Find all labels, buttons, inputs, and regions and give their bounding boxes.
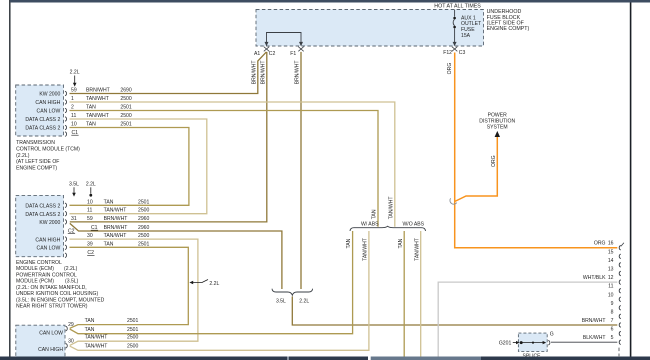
svg-text:2501: 2501 (120, 122, 131, 128)
top bar (10, 0, 650, 3)
svg-text:TAN: TAN (85, 327, 95, 333)
svg-text:2500: 2500 (138, 233, 149, 239)
right connector pins 16..5 (619, 245, 621, 344)
svg-text:G: G (550, 331, 554, 337)
wire TAN/WHT 2500 ECM pin 30 to radio pin 30 (70, 239, 198, 345)
svg-text:CONTROL MODULE (TCM): CONTROL MODULE (TCM) (16, 147, 80, 153)
svg-text:TAN: TAN (398, 238, 404, 248)
svg-text:KW 2000: KW 2000 (39, 220, 60, 226)
right connector pin numbers (608, 241, 614, 342)
svg-text:CAN LOW: CAN LOW (37, 246, 61, 252)
svg-text:MODULE (PCM): MODULE (PCM) (16, 279, 54, 285)
svg-text:BRN/WHT: BRN/WHT (295, 61, 301, 85)
svg-text:UNDER IGNITION COIL HOUSING): UNDER IGNITION COIL HOUSING) (16, 291, 98, 297)
svg-text:BRN/WHT: BRN/WHT (104, 216, 128, 222)
svg-text:W/ ABS: W/ ABS (361, 221, 379, 227)
svg-text:(3.5L): (3.5L) (65, 279, 79, 285)
svg-text:2500: 2500 (120, 113, 131, 119)
3.5L arrow above ECM (69, 182, 79, 197)
svg-text:CAN HIGH: CAN HIGH (38, 347, 63, 353)
wire TAN 2501 radio pin 29 to W-ABS (70, 231, 353, 334)
svg-text:2.2L: 2.2L (70, 70, 80, 76)
svg-text:BLK/WHT: BLK/WHT (583, 335, 606, 341)
ECM caption (16, 260, 105, 310)
svg-text:2500: 2500 (127, 344, 138, 350)
svg-text:2.2L: 2.2L (86, 182, 96, 188)
wire BRN/WHT 2690 TCM pin 59 to A1 (70, 52, 267, 94)
svg-text:NEAR RIGHT STRUT TOWER): NEAR RIGHT STRUT TOWER) (16, 304, 88, 310)
svg-text:F12: F12 (443, 50, 452, 56)
svg-text:2501: 2501 (138, 241, 149, 247)
svg-text:(2.2L): (2.2L) (16, 153, 30, 159)
svg-text:TAN/WHT: TAN/WHT (414, 238, 420, 261)
wire TAN 2501 TCM pin 2 to brace (70, 111, 379, 227)
2.2L arrow above TCM pin 59 (70, 70, 80, 87)
svg-text:TAN/WHT: TAN/WHT (104, 208, 127, 214)
svg-text:7: 7 (611, 318, 614, 324)
2.2L arrow above ECM (86, 182, 96, 197)
svg-text:2501: 2501 (127, 327, 138, 333)
svg-text:13: 13 (608, 267, 614, 273)
svg-text:SYSTEM: SYSTEM (487, 125, 508, 131)
svg-text:2: 2 (71, 105, 74, 111)
brace 3.5L/2.2L merge (272, 289, 313, 296)
svg-text:TAN/WHT: TAN/WHT (85, 335, 108, 341)
svg-text:10: 10 (608, 292, 614, 298)
svg-text:8: 8 (611, 309, 614, 315)
node POWER DISTRIBUTION SYSTEM (479, 113, 515, 131)
svg-text:POWERTRAIN CONTROL: POWERTRAIN CONTROL (16, 272, 77, 278)
wire ORG branch to power distribution (455, 137, 498, 202)
svg-text:A1: A1 (254, 51, 260, 57)
svg-text:ORG: ORG (491, 155, 497, 167)
svg-text:BRN/WHT: BRN/WHT (86, 88, 110, 94)
svg-text:TAN: TAN (346, 238, 352, 248)
wire BRN/WHT 2960 A1 to ECM pin 59 (70, 52, 267, 222)
svg-text:TAN: TAN (86, 122, 96, 128)
svg-text:WHT/BLK: WHT/BLK (583, 275, 606, 281)
wire TAN W/O ABS down (403, 231, 405, 360)
page border right (630, 2, 632, 360)
TCM pin/wire labels (71, 88, 132, 137)
svg-text:BRN/WHT: BRN/WHT (582, 318, 606, 324)
svg-text:TAN: TAN (86, 105, 96, 111)
TCM caption (16, 140, 80, 171)
svg-text:(AT LEFT SIDE OF: (AT LEFT SIDE OF (16, 159, 59, 165)
svg-text:10: 10 (87, 199, 93, 205)
svg-text:BRN/WHT: BRN/WHT (260, 61, 266, 85)
svg-text:(3.5L: IN ENGINE COMPT, MOUNTE: (3.5L: IN ENGINE COMPT, MOUNTED (16, 297, 105, 303)
svg-text:DATA CLASS 2: DATA CLASS 2 (25, 126, 60, 132)
svg-text:BRN/WHT: BRN/WHT (251, 61, 257, 85)
svg-text:11: 11 (87, 208, 92, 214)
bus bar A1-F1 inside fuse block (267, 33, 302, 44)
svg-text:31: 31 (71, 216, 77, 222)
svg-text:ORG: ORG (447, 63, 453, 75)
svg-text:2.2L: 2.2L (209, 281, 219, 287)
svg-text:(2.2L: ON INTAKE MANIFOLD,: (2.2L: ON INTAKE MANIFOLD, (16, 285, 87, 291)
2.2L arrow pointing at riser wires (189, 280, 219, 288)
wire TAN/WHT 2500 TCM pin 1 to brace (70, 102, 395, 227)
svg-text:TAN: TAN (85, 318, 95, 324)
svg-text:HOT AT ALL TIMES: HOT AT ALL TIMES (434, 3, 481, 9)
svg-text:16: 16 (608, 241, 614, 247)
TCM pins (65, 91, 67, 136)
svg-text:DATA CLASS 2: DATA CLASS 2 (25, 212, 60, 218)
svg-text:10: 10 (71, 122, 77, 128)
svg-text:ENGINE CONTROL: ENGINE CONTROL (16, 260, 62, 266)
svg-text:BRN/WHT: BRN/WHT (104, 225, 128, 231)
svg-text:C3: C3 (459, 50, 466, 56)
ECM pins (65, 203, 67, 258)
pin F1 of fuse block (298, 47, 303, 52)
ECM/PCM block (16, 195, 64, 256)
svg-text:ORG: ORG (594, 241, 606, 247)
svg-text:2500: 2500 (127, 335, 138, 341)
svg-text:W/O ABS: W/O ABS (403, 221, 425, 227)
svg-text:CAN HIGH: CAN HIGH (35, 237, 60, 243)
svg-text:DATA CLASS 2: DATA CLASS 2 (25, 117, 60, 123)
wire BRN/WHT F1 down to 2.2L brace (300, 52, 302, 289)
wire BRN/WHT 2960 ECM C1 row to 3.5L brace (70, 223, 282, 289)
svg-text:TAN/WHT: TAN/WHT (388, 196, 394, 219)
ECM pin/wire labels (68, 199, 150, 256)
pin A1/C2 of fuse block (264, 47, 269, 52)
bottom bar (0, 357, 287, 360)
pin F12/C3 of fuse block (452, 47, 457, 52)
svg-text:TAN: TAN (104, 199, 114, 205)
vertical wire labels (251, 61, 496, 261)
wire ORG fuse to radio pin 16 (455, 53, 618, 248)
svg-text:30: 30 (68, 339, 74, 345)
svg-text:TAN/WHT: TAN/WHT (363, 238, 369, 261)
svg-text:3.5L: 3.5L (69, 182, 79, 188)
svg-text:KW 2000: KW 2000 (39, 92, 60, 98)
connector dashes (621, 243, 624, 247)
svg-text:2501: 2501 (138, 199, 149, 205)
svg-text:3.5L: 3.5L (276, 298, 286, 304)
svg-text:F1: F1 (290, 51, 296, 57)
svg-text:5: 5 (611, 335, 614, 341)
radio pins 29/30 (66, 326, 68, 348)
svg-text:15A: 15A (461, 33, 471, 39)
svg-text:CAN LOW: CAN LOW (39, 330, 63, 336)
svg-text:TRANSMISSION: TRANSMISSION (16, 140, 55, 146)
svg-text:2.2L: 2.2L (299, 298, 309, 304)
svg-text:(2.2L): (2.2L) (64, 266, 78, 272)
svg-text:59: 59 (87, 216, 93, 222)
svg-text:6: 6 (611, 327, 614, 333)
svg-text:TAN/WHT: TAN/WHT (86, 113, 109, 119)
radio block (bottom left) (16, 325, 65, 359)
svg-text:TAN/WHT: TAN/WHT (86, 96, 109, 102)
svg-text:2500: 2500 (120, 96, 131, 102)
fuse AUX 1 OUTLET FUSE 15A (453, 10, 482, 47)
svg-text:15: 15 (608, 249, 614, 255)
svg-text:TAN: TAN (372, 209, 378, 219)
svg-text:2960: 2960 (138, 216, 149, 222)
svg-text:39: 39 (87, 241, 93, 247)
page border left (9, 0, 11, 360)
wire TAN/WHT W/O ABS down (420, 231, 422, 360)
svg-text:59: 59 (71, 88, 77, 94)
svg-text:11: 11 (608, 284, 613, 290)
svg-text:29: 29 (68, 322, 74, 328)
wire TAN/WHT 2500 TCM pin 11 to ECM pin 11 (70, 119, 207, 214)
svg-text:14: 14 (608, 258, 614, 264)
right connector wire labels (582, 241, 606, 342)
TCM block (16, 85, 64, 136)
svg-text:9: 9 (611, 301, 614, 307)
svg-text:TAN/WHT: TAN/WHT (104, 233, 127, 239)
svg-text:CAN HIGH: CAN HIGH (35, 100, 60, 106)
svg-text:ENGINE COMPT): ENGINE COMPT) (487, 26, 530, 32)
svg-text:G201: G201 (499, 340, 512, 346)
svg-text:MODULE (ECM): MODULE (ECM) (16, 266, 54, 272)
svg-text:ENGINE COMPT): ENGINE COMPT) (16, 165, 57, 171)
svg-text:2690: 2690 (120, 88, 131, 94)
wire TAN 2501 TCM pin 10 to ECM pin 10 (70, 128, 189, 206)
svg-text:TAN: TAN (104, 241, 114, 247)
svg-text:2500: 2500 (138, 208, 149, 214)
svg-text:2501: 2501 (120, 105, 131, 111)
wire TAN 2501 ECM pin 39 to radio pin 29 (70, 247, 189, 328)
wire BLK/WHT splice to radio pin 5 (551, 341, 617, 343)
svg-text:12: 12 (608, 275, 614, 281)
svg-text:11: 11 (71, 113, 76, 119)
svg-text:30: 30 (87, 233, 93, 239)
ground G201 splice pack (499, 331, 554, 359)
radio wire labels (85, 318, 139, 350)
svg-text:TAN/WHT: TAN/WHT (85, 344, 108, 350)
svg-text:CAN LOW: CAN LOW (37, 109, 61, 115)
svg-text:C2: C2 (269, 51, 276, 57)
underhood fuse block (256, 10, 484, 47)
brace W-ABS / W/O-ABS (350, 226, 426, 231)
underhood fuse block label (487, 9, 530, 32)
wire TAN/WHT 2500 radio pin 30 to W-ABS (70, 231, 369, 350)
svg-text:DATA CLASS 2: DATA CLASS 2 (25, 204, 60, 210)
svg-text:2960: 2960 (138, 225, 149, 231)
junction arc on ORG wire (450, 198, 457, 204)
wire BRN/WHT merged to radio pin 7 (292, 297, 617, 326)
svg-text:1: 1 (71, 96, 74, 102)
svg-text:2501: 2501 (127, 318, 138, 324)
wire WHT/BLK radio pin 12 (438, 282, 617, 360)
